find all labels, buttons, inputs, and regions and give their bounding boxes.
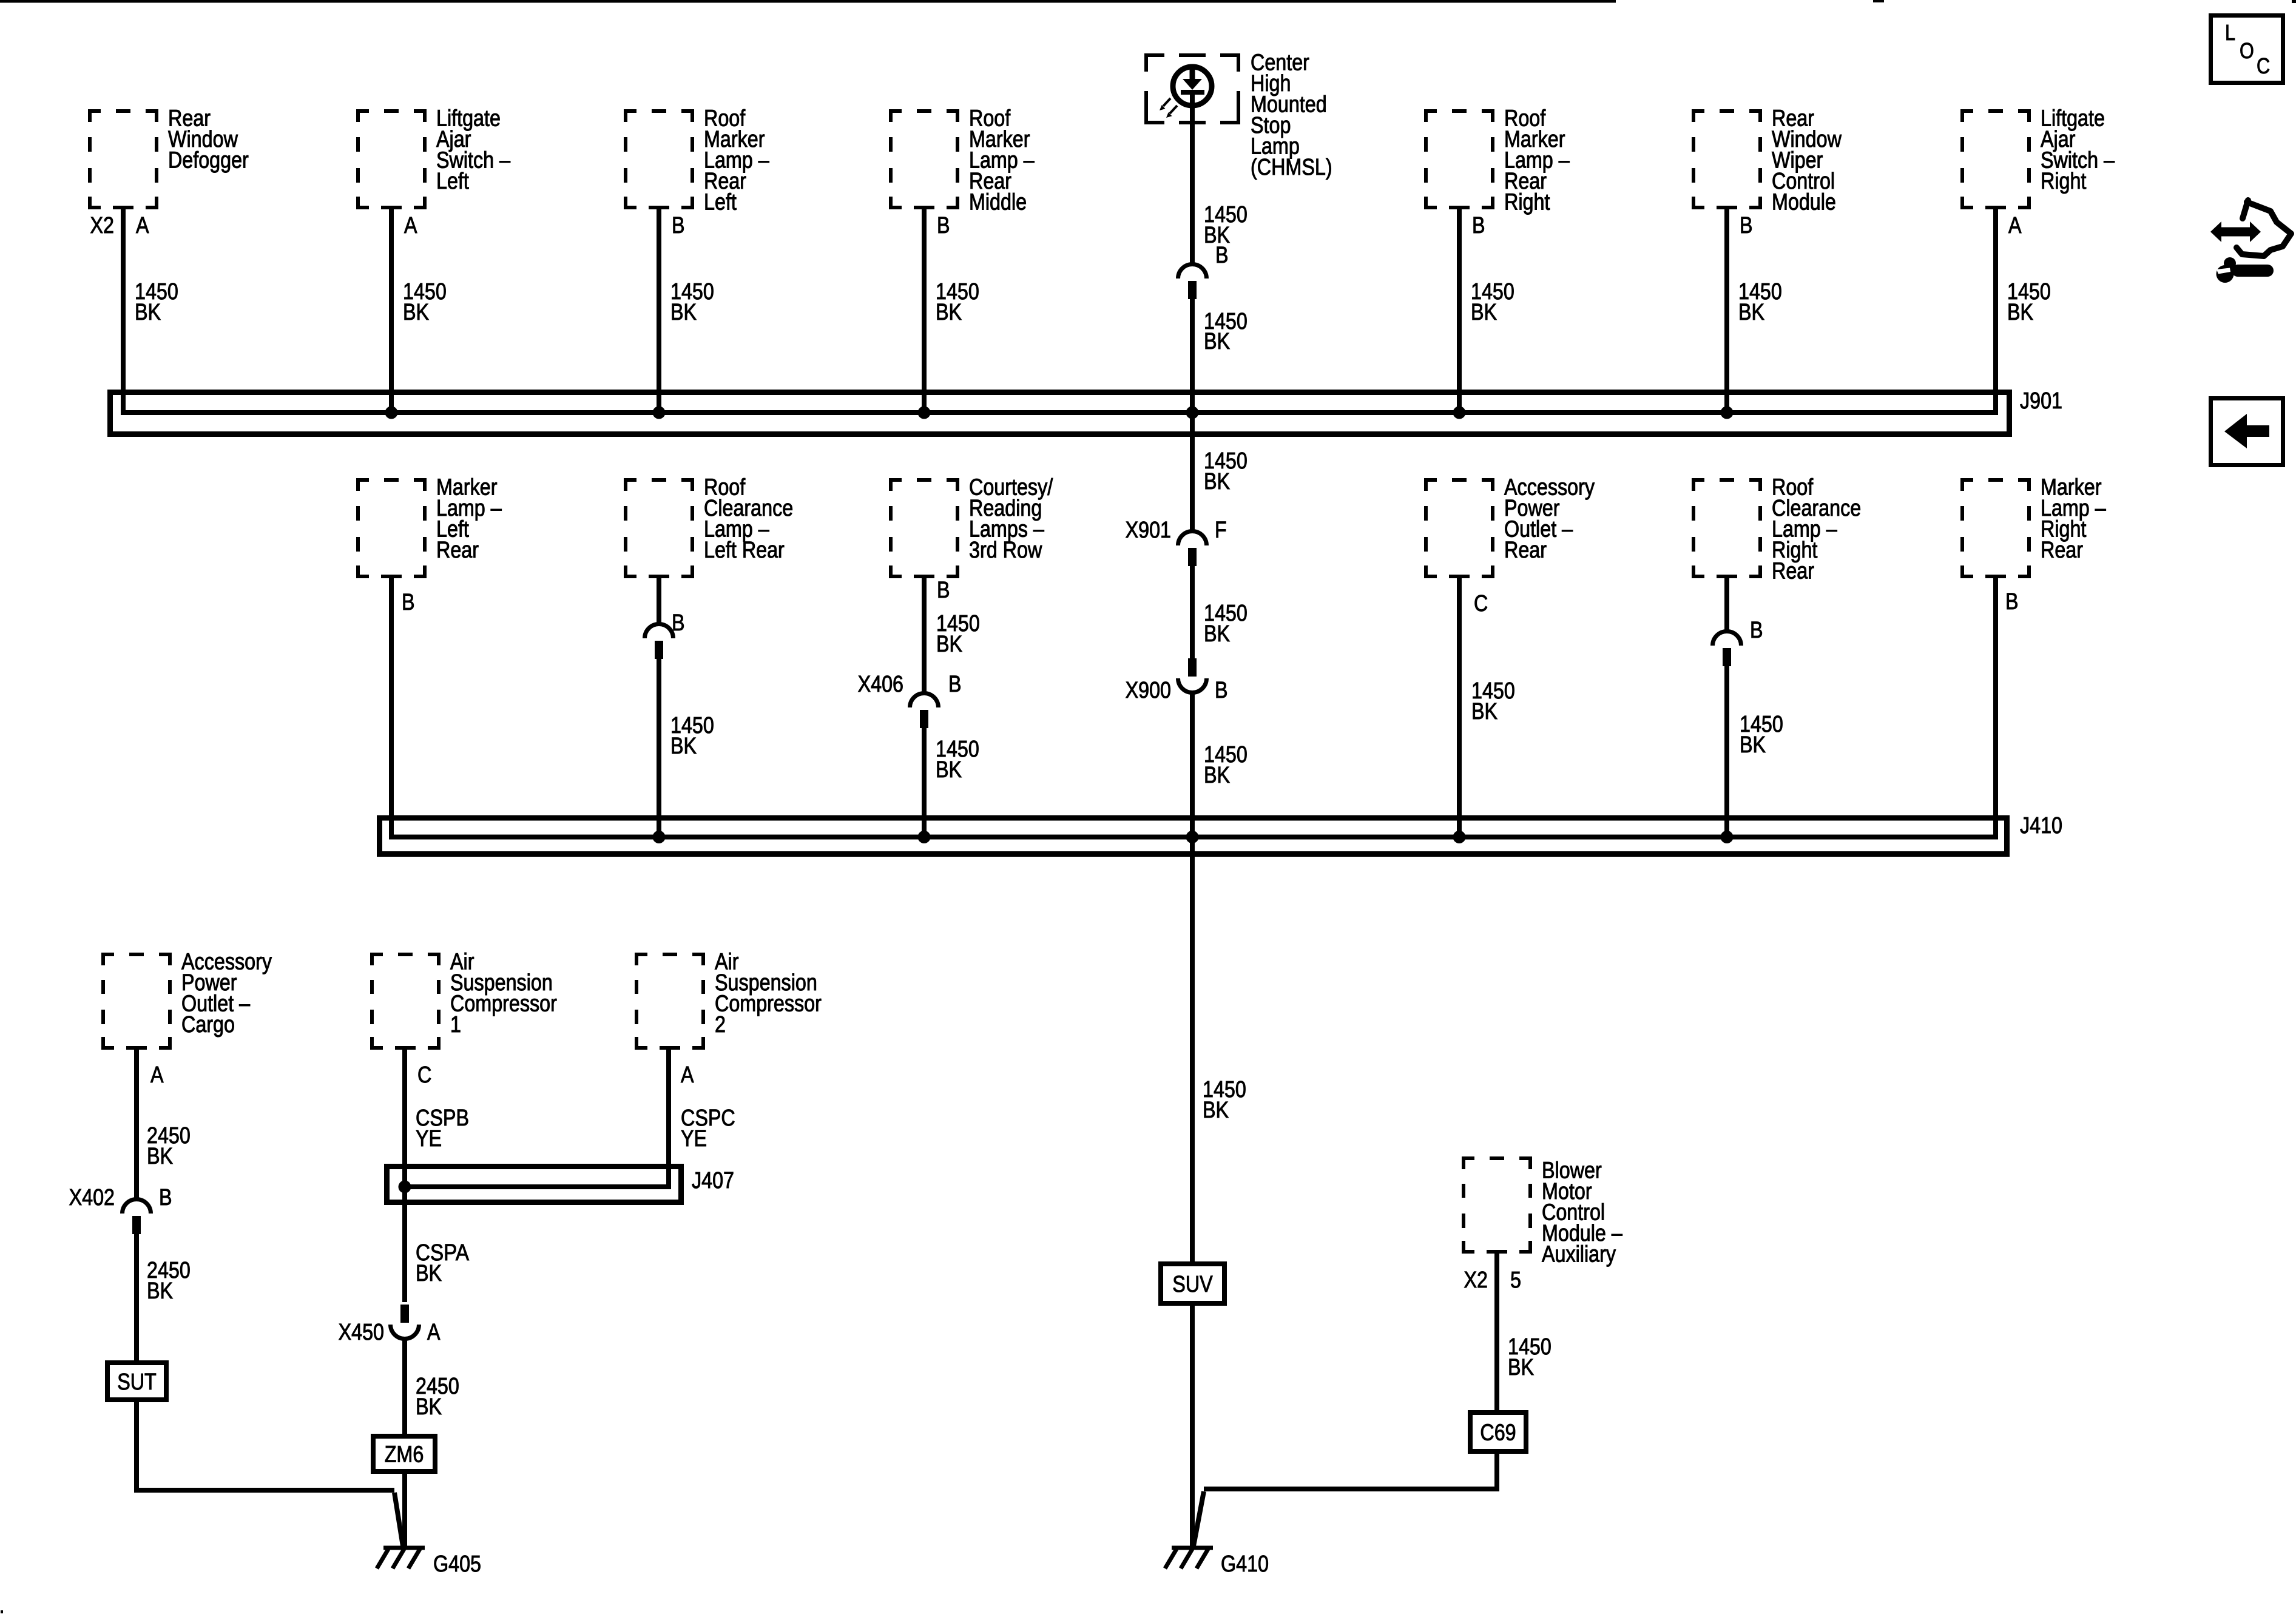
wire 1450 BK to J410 <box>657 659 661 837</box>
junction on J901 at x=2846 <box>1721 407 1734 419</box>
wire CSPC YE compressor 2 into J407 inner wire <box>405 1050 669 1187</box>
component box: rear window wiper control module <box>1693 111 1760 208</box>
wire 1450 BK X901 to X900 <box>1190 566 1195 658</box>
component box: liftgate ajar switch left <box>358 111 425 208</box>
svg-text:X450: X450 <box>339 1320 384 1345</box>
svg-text:A: A <box>150 1062 164 1088</box>
component box: accessory power outlet cargo <box>103 954 170 1048</box>
svg-text:Compressor: Compressor <box>450 991 557 1017</box>
svg-text:Cargo: Cargo <box>181 1012 235 1038</box>
svg-text:BK: BK <box>2007 300 2033 325</box>
J901 inner bus wire with end corners <box>123 209 1996 413</box>
wire 1450 BK to J410 (clearance right) <box>1724 666 1729 837</box>
junction on J410 at x=1523 <box>918 831 931 843</box>
svg-text:X901: X901 <box>1126 518 1171 543</box>
wire 2450 BK X450 to ZM6 <box>402 1340 407 1436</box>
component box: roof marker lamp rear left <box>626 111 692 208</box>
svg-text:A: A <box>427 1320 441 1345</box>
svg-text:G405: G405 <box>433 1551 481 1577</box>
option code box SUV <box>1161 1264 1224 1303</box>
component box: air suspension compressor 1 <box>372 954 439 1048</box>
back arrow box <box>2211 399 2283 465</box>
wire ZM6 to ground G405 <box>402 1471 407 1547</box>
svg-text:ZM6: ZM6 <box>385 1442 424 1468</box>
component box: accessory power outlet rear <box>1426 480 1493 576</box>
LOC reference box <box>2211 16 2283 83</box>
svg-text:B: B <box>672 213 685 238</box>
wire 1450 BK from roof marker lamp rear left to J901 <box>657 209 661 413</box>
svg-text:B: B <box>402 590 415 615</box>
svg-text:BK: BK <box>670 734 697 759</box>
svg-text:B: B <box>672 610 685 636</box>
splice pack J407 outer rectangle <box>387 1167 681 1203</box>
svg-text:X2: X2 <box>90 213 115 238</box>
svg-text:J407: J407 <box>692 1168 734 1193</box>
svg-text:B: B <box>1472 213 1485 238</box>
CHMSL lamp (LED) symbol <box>1173 67 1212 106</box>
svg-text:B: B <box>1215 243 1229 268</box>
wire SUV to ground G410 <box>1190 1303 1195 1547</box>
page top border artifact <box>0 0 1616 3</box>
wire 1450 BK from liftgate ajar switch left to J901 <box>389 209 394 413</box>
svg-text:G410: G410 <box>1221 1551 1269 1577</box>
svg-text:J901: J901 <box>2020 388 2062 414</box>
svg-text:BK: BK <box>936 757 962 783</box>
wire 1450 BK from roof marker lamp rear middle to J901 <box>922 209 927 413</box>
svg-text:BK: BK <box>1204 621 1230 647</box>
svg-text:Module: Module <box>1772 190 1836 215</box>
svg-text:BK: BK <box>936 632 962 657</box>
wire courtesy lamps to X406 <box>922 578 927 693</box>
navigation icon: double arrow with liftgate outline and wrench <box>2210 221 2261 242</box>
svg-text:BK: BK <box>416 1261 442 1286</box>
component box: roof clearance lamp left rear <box>626 480 692 576</box>
svg-text:Rear: Rear <box>1504 538 1547 563</box>
light emission arrows of CHMSL lamp <box>1163 98 1170 106</box>
inline connector X901 <box>1178 531 1207 545</box>
svg-text:Rear: Rear <box>1772 559 1814 584</box>
svg-text:X406: X406 <box>858 672 903 697</box>
diagonal merge into G410 stem <box>1194 1491 1204 1546</box>
svg-text:C: C <box>417 1062 431 1088</box>
svg-text:B: B <box>937 578 950 603</box>
component box: roof clearance lamp right rear <box>1693 480 1760 576</box>
svg-text:Right: Right <box>1504 190 1550 215</box>
svg-text:X402: X402 <box>69 1185 115 1210</box>
svg-text:BK: BK <box>670 300 697 325</box>
svg-text:2: 2 <box>715 1012 726 1038</box>
inline connector B (roof clearance right rear) <box>1713 632 1741 646</box>
svg-text:(CHMSL): (CHMSL) <box>1251 155 1332 180</box>
component box: roof marker lamp rear right <box>1426 111 1493 208</box>
junction on J410 at x=2846 <box>1721 831 1734 843</box>
svg-text:Rear: Rear <box>2041 538 2083 563</box>
svg-text:BK: BK <box>1204 763 1230 788</box>
junction on J901 at x=1086 <box>653 407 666 419</box>
inline connector X402 <box>123 1199 151 1214</box>
junction on J901 at x=645 <box>385 407 398 419</box>
junction on J410 at x=1086 <box>653 831 666 843</box>
wire 1450 BK from liftgate ajar switch right to J901 <box>1993 209 1998 413</box>
svg-text:BK: BK <box>135 300 161 325</box>
svg-text:X2: X2 <box>1464 1268 1488 1293</box>
svg-text:X900: X900 <box>1126 678 1171 703</box>
svg-text:B: B <box>937 213 950 238</box>
ground G405 <box>383 1546 425 1550</box>
J410 inner bus wire with end corner wires (marker lamps) <box>391 578 1996 837</box>
svg-text:Defogger: Defogger <box>168 148 249 174</box>
svg-text:C: C <box>1474 591 1488 616</box>
svg-text:BK: BK <box>1203 1098 1229 1123</box>
svg-text:J410: J410 <box>2020 813 2062 839</box>
svg-text:A: A <box>2008 213 2022 238</box>
component box: rear window defogger <box>90 111 157 208</box>
svg-text:5: 5 <box>1510 1268 1521 1293</box>
svg-text:B: B <box>948 672 962 697</box>
wire CSPB YE / CSPA BK compressor 1 through J407 to X450 <box>402 1050 407 1302</box>
svg-text:BK: BK <box>936 300 962 325</box>
wire 1450 BK CHMSL to connector B <box>1190 95 1195 264</box>
wire 1450 BK X900 through J410 to SUV <box>1190 694 1195 1264</box>
junction on J901 at x=2405 <box>1453 407 1466 419</box>
option code box C69 <box>1470 1413 1526 1451</box>
inline connector X900 <box>1188 658 1197 677</box>
wire roof clearance lamp right rear to connector <box>1724 578 1729 631</box>
svg-text:Rear: Rear <box>436 538 479 563</box>
junction on J410 at x=1965 <box>1186 831 1199 843</box>
wire 1450 BK accessory power outlet rear to J410 <box>1457 578 1462 837</box>
svg-text:Right: Right <box>2041 169 2087 194</box>
svg-text:BK: BK <box>1471 300 1497 325</box>
wire C69 to ground run <box>1204 1451 1497 1489</box>
inline connector X406 <box>910 694 939 708</box>
svg-text:C69: C69 <box>1480 1420 1516 1446</box>
junction on J901 at x=1965 <box>1186 407 1199 419</box>
svg-text:BK: BK <box>1738 300 1764 325</box>
wire 1450 BK X406 to J410 <box>922 728 927 837</box>
svg-text:L: L <box>2225 20 2235 45</box>
svg-text:BK: BK <box>1204 469 1230 495</box>
svg-text:Middle: Middle <box>969 190 1027 215</box>
svg-text:BK: BK <box>1740 732 1766 758</box>
svg-text:Left Rear: Left Rear <box>704 538 785 563</box>
option code box ZM6 <box>373 1436 435 1471</box>
svg-text:A: A <box>136 213 149 238</box>
splice pack J901 outer rectangle <box>110 393 2010 434</box>
svg-text:C: C <box>2257 53 2270 78</box>
svg-text:BK: BK <box>416 1394 442 1420</box>
wire 1450 BK blower to C69 <box>1494 1254 1499 1413</box>
svg-text:F: F <box>1215 518 1227 543</box>
svg-text:B: B <box>1215 678 1228 703</box>
svg-text:B: B <box>1740 213 1753 238</box>
svg-text:A: A <box>681 1062 694 1088</box>
component box: center high mounted stop lamp (CHMSL) <box>1146 55 1238 123</box>
svg-text:B: B <box>159 1185 172 1210</box>
svg-text:BK: BK <box>1471 699 1497 724</box>
wire 1450 BK from rear window wiper control module to J901 <box>1724 209 1729 413</box>
svg-text:YE: YE <box>416 1126 442 1152</box>
junction on J901 at x=1523 <box>918 407 931 419</box>
splice pack J410 outer rectangle <box>380 818 2007 854</box>
svg-text:Compressor: Compressor <box>715 991 822 1017</box>
option code box SUT <box>107 1363 166 1400</box>
wire 2450 BK APO cargo to X402 <box>134 1050 139 1199</box>
diagonal merge into G405 stem <box>394 1493 403 1546</box>
svg-text:B: B <box>1750 618 1763 643</box>
svg-text:1: 1 <box>450 1012 461 1038</box>
component box: marker lamp left rear <box>358 480 425 576</box>
svg-text:SUV: SUV <box>1172 1272 1213 1297</box>
svg-text:BK: BK <box>403 300 429 325</box>
wire SUT to ground run <box>137 1400 394 1490</box>
svg-text:A: A <box>404 213 417 238</box>
svg-text:Left: Left <box>436 169 469 194</box>
wire roof clearance lamp left rear to connector <box>657 578 661 624</box>
component box: roof marker lamp rear middle <box>891 111 957 208</box>
svg-text:3rd Row: 3rd Row <box>969 538 1042 563</box>
svg-text:Auxiliary: Auxiliary <box>1542 1242 1616 1268</box>
wire 1450 BK connector to J901 <box>1190 299 1195 413</box>
svg-text:BK: BK <box>147 1278 173 1304</box>
wire 1450 BK J901 to X901 <box>1190 413 1195 531</box>
inline connector B below CHMSL <box>1178 264 1207 279</box>
svg-text:BK: BK <box>1204 329 1230 354</box>
svg-text:YE: YE <box>681 1126 707 1152</box>
svg-text:BK: BK <box>1508 1355 1534 1380</box>
inline connector B (roof clearance left rear) <box>645 624 674 639</box>
component box: liftgate ajar switch right <box>1962 111 2029 208</box>
component box: air suspension compressor 2 <box>636 954 703 1048</box>
svg-text:BK: BK <box>147 1144 173 1169</box>
wire 2450 BK X402 to SUT <box>134 1234 139 1363</box>
junction on J407 <box>399 1181 411 1193</box>
component box: courtesy reading lamps 3rd row <box>891 480 957 576</box>
wrench icon <box>2224 257 2236 269</box>
svg-text:B: B <box>2005 589 2019 615</box>
component box: blower motor control module auxiliary <box>1464 1158 1530 1252</box>
svg-text:O: O <box>2240 38 2254 63</box>
inline connector X450 <box>400 1305 409 1323</box>
component box: marker lamp right rear <box>1962 480 2029 576</box>
junction on J410 at x=2405 <box>1453 831 1466 843</box>
wire 1450 BK from roof marker lamp rear right to J901 <box>1457 209 1462 413</box>
svg-text:SUT: SUT <box>117 1369 157 1395</box>
ground G410 <box>1172 1546 1213 1550</box>
svg-text:Left: Left <box>704 190 737 215</box>
